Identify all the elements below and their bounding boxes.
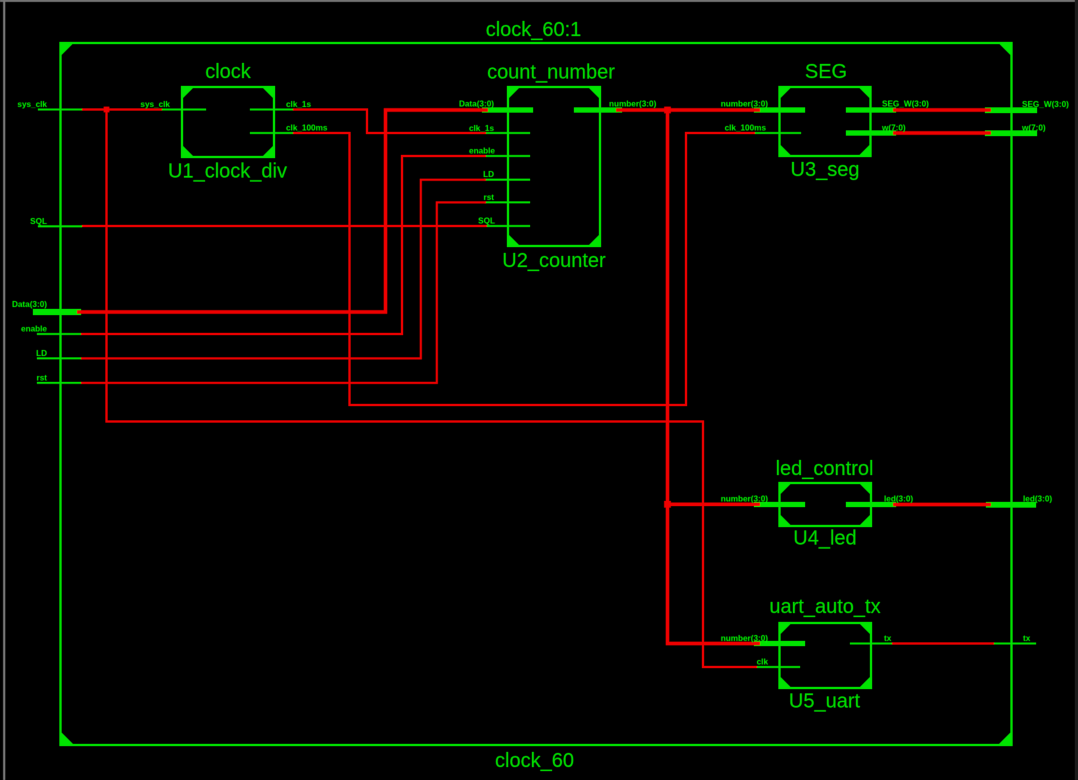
svg-text:clk_1s: clk_1s — [286, 100, 311, 109]
svg-text:SEG: SEG — [805, 61, 847, 83]
svg-text:U5_uart: U5_uart — [789, 691, 861, 713]
svg-text:clock_60: clock_60 — [495, 750, 574, 772]
svg-text:rst: rst — [484, 193, 495, 202]
svg-text:led_control: led_control — [776, 458, 874, 480]
svg-text:U4_led: U4_led — [793, 528, 856, 550]
svg-text:number(3:0): number(3:0) — [721, 634, 769, 643]
svg-text:uart_auto_tx: uart_auto_tx — [769, 596, 880, 618]
svg-text:U2_counter: U2_counter — [502, 250, 606, 272]
svg-text:SEG_W(3:0): SEG_W(3:0) — [882, 99, 929, 108]
svg-text:SEG_W(3:0): SEG_W(3:0) — [1022, 100, 1069, 109]
svg-text:LD: LD — [36, 349, 47, 358]
svg-text:Data(3:0): Data(3:0) — [459, 99, 494, 108]
svg-text:clock: clock — [205, 61, 252, 83]
svg-text:U1_clock_div: U1_clock_div — [168, 161, 287, 183]
svg-text:sys_clk: sys_clk — [17, 100, 47, 109]
svg-text:rst: rst — [37, 373, 48, 382]
svg-text:clk_100ms: clk_100ms — [286, 124, 328, 133]
svg-text:tx: tx — [884, 634, 892, 643]
svg-text:U3_seg: U3_seg — [791, 159, 860, 181]
svg-text:clock_60:1: clock_60:1 — [486, 19, 582, 41]
svg-text:enable: enable — [469, 147, 495, 156]
svg-text:clk_1s: clk_1s — [469, 124, 494, 133]
svg-text:w(7:0): w(7:0) — [881, 124, 906, 133]
svg-text:LD: LD — [483, 170, 494, 179]
svg-text:clk_100ms: clk_100ms — [725, 124, 767, 133]
svg-text:SQL: SQL — [30, 217, 47, 226]
svg-text:w(7:0): w(7:0) — [1021, 124, 1046, 133]
svg-text:count_number: count_number — [487, 62, 615, 84]
svg-text:sys_clk: sys_clk — [140, 100, 170, 109]
svg-text:number(3:0): number(3:0) — [721, 495, 769, 504]
svg-text:number(3:0): number(3:0) — [609, 99, 657, 108]
svg-text:tx: tx — [1023, 634, 1031, 643]
svg-text:clk: clk — [757, 658, 769, 667]
svg-text:SQL: SQL — [478, 217, 495, 226]
svg-text:enable: enable — [21, 325, 47, 334]
svg-text:number(3:0): number(3:0) — [721, 99, 769, 108]
svg-text:led(3:0): led(3:0) — [1023, 495, 1052, 504]
svg-text:led(3:0): led(3:0) — [884, 495, 913, 504]
svg-text:Data(3:0): Data(3:0) — [12, 300, 47, 309]
